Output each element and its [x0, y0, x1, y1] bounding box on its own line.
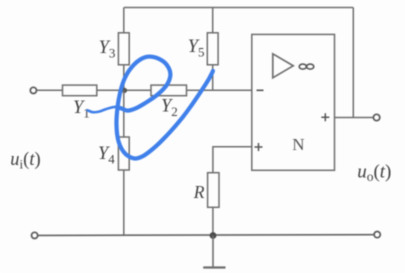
infinity gain symbol right loop [307, 64, 314, 69]
plus input sign [255, 143, 263, 151]
annotation blue pen stroke start (thin lead-in of cursive loop) [88, 107, 121, 112]
wire non-inverting input to R column [213, 147, 252, 173]
wire Y4 bottom to bottom rail [123, 170, 125, 235]
node A junction dot [122, 88, 127, 93]
admittance Y1 [63, 85, 97, 96]
wire node A down to Y4 [123, 90, 125, 137]
annotation blue pen cursive loop around node A with exit tail to Y5 [116, 57, 212, 159]
admittance Y3 [118, 33, 129, 65]
wire R bottom to bottom rail [212, 207, 214, 235]
wire op-amp output [335, 117, 374, 119]
minus input sign [257, 89, 264, 91]
wire input to Y1 [37, 89, 63, 91]
bottom rail [38, 234, 374, 237]
output terminal [373, 114, 379, 120]
svg-text:R: R [193, 182, 205, 202]
svg-text:ui(t): ui(t) [10, 150, 40, 172]
resistor R [208, 173, 219, 208]
admittance Y2 [151, 85, 187, 96]
input terminal [30, 87, 36, 93]
wire Y1 to node A [97, 89, 151, 91]
svg-text:N: N [292, 135, 304, 154]
ground junction dot [210, 232, 217, 239]
wire top rail [124, 7, 353, 9]
svg-text:uo(t): uo(t) [357, 161, 391, 184]
wire top rail left drop to Y3 [123, 8, 125, 34]
admittance Y5 [207, 33, 218, 65]
op-amp U1 box [252, 34, 335, 170]
output plus sign [321, 113, 329, 121]
op-amp triangle [273, 54, 293, 78]
admittance Y4 [118, 137, 129, 170]
ground bar [203, 266, 225, 268]
wire top rail drop to Y5 [212, 8, 214, 34]
bottom right terminal [374, 232, 380, 238]
wire Y2 to op-amp inverting input [187, 89, 252, 91]
wire feedback from output to top rail [352, 8, 354, 118]
wire Y5 bottom to inverting input wire [212, 65, 214, 91]
ground stem [212, 236, 214, 268]
infinity gain symbol [299, 64, 306, 69]
bottom left terminal [31, 232, 37, 238]
wire Y3 bottom to node A [123, 65, 125, 91]
